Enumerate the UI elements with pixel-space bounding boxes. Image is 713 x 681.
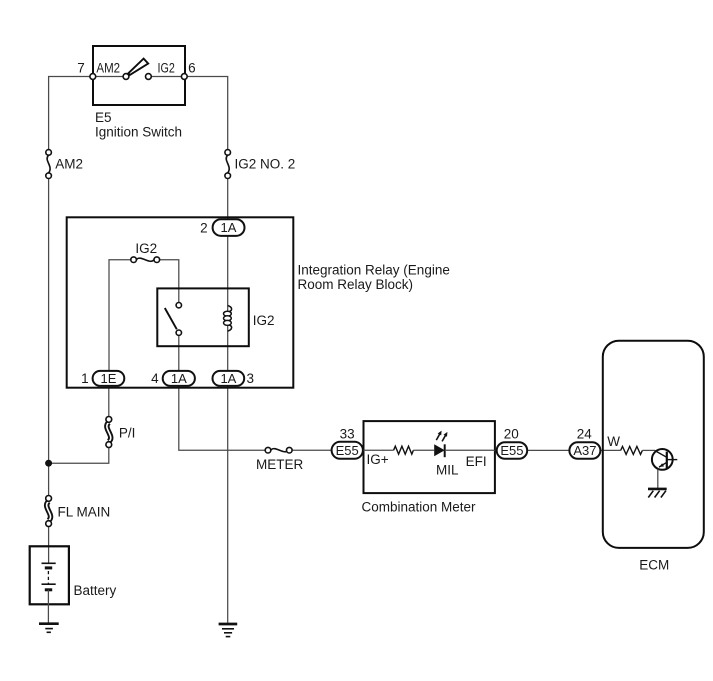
wire: switch internal left segment (93, 76, 124, 78)
relay switch upper contact (176, 303, 181, 308)
IG2 pole contact circle (146, 74, 152, 80)
svg-text:24: 24 (577, 426, 593, 441)
svg-text:AM2: AM2 (96, 60, 120, 75)
svg-text:MIL: MIL (436, 462, 459, 477)
wire: MIL lamp to meter right edge (445, 449, 495, 451)
ground (integration relay) (219, 624, 238, 637)
wire: AM2 fuse to battery main vertical (48, 179, 50, 564)
svg-text:20: 20 (504, 426, 519, 441)
wire: A37 into ECM to resistor (600, 449, 620, 451)
wire: METER fuse to connector E55 pin 33 (292, 449, 332, 451)
svg-text:W: W (607, 434, 620, 449)
svg-text:Battery: Battery (74, 583, 117, 598)
fuse AM2 (46, 150, 52, 179)
wire: transistor emitter to ground (657, 469, 659, 489)
terminal 7 contact circle (90, 74, 96, 80)
svg-text:6: 6 (188, 60, 196, 75)
wire: IG2 NO.2 fuse down through relay coil to ground (227, 179, 229, 623)
wire: terminal 7 to AM2 fuse (left drop) (49, 77, 93, 150)
wire: P/I fuse to junction node (49, 448, 109, 464)
fusible link P/I (106, 417, 112, 448)
wire: relay IG2 fuse left to connector 1E (109, 260, 131, 371)
svg-text:IG2: IG2 (158, 60, 175, 75)
svg-text:E55: E55 (336, 443, 359, 458)
connector 1 1E (oval) (93, 371, 125, 386)
wire: connector 1E down to P/I fuse (108, 386, 110, 417)
ignition switch box E5 (93, 46, 185, 105)
svg-text:FL MAIN: FL MAIN (58, 505, 111, 520)
wire: resistor to transistor (642, 449, 655, 451)
connector E55 pin 20 (oval) (497, 442, 528, 459)
wire: resistor to MIL lamp (413, 449, 434, 451)
wire: connector 4 1A to METER fuse (179, 386, 266, 450)
svg-text:METER: METER (256, 457, 304, 472)
wire: relay IG2 fuse right to relay switch (159, 260, 179, 303)
svg-text:IG2 NO. 2: IG2 NO. 2 (235, 156, 296, 171)
MIL indicator LED (434, 431, 447, 458)
svg-text:1A: 1A (171, 371, 187, 386)
svg-text:P/I: P/I (119, 426, 136, 441)
junction node (dot) (45, 460, 52, 467)
connector A37 pin 24 (oval) (569, 442, 600, 459)
svg-text:Integration Relay (Engine: Integration Relay (Engine (298, 263, 450, 278)
ground (battery) (39, 624, 59, 633)
svg-text:ECM: ECM (639, 557, 669, 572)
wire: relay switch lower contact to connector 4 1A (178, 335, 180, 371)
svg-text:1E: 1E (101, 371, 117, 386)
svg-text:Ignition Switch: Ignition Switch (95, 124, 182, 139)
ECM box (603, 341, 704, 548)
wire: meter internal left (364, 449, 394, 451)
relay switch lower contact (176, 330, 181, 335)
relay switch arm (165, 308, 177, 329)
chassis ground (ECM) (648, 489, 667, 498)
fuse IG2 NO. 2 (225, 150, 231, 179)
svg-text:E55: E55 (500, 443, 523, 458)
battery cell plates (42, 563, 56, 590)
connector E55 pin 33 (oval) (332, 442, 363, 459)
svg-text:1A: 1A (221, 220, 237, 235)
resistor (ECM) (621, 446, 643, 454)
svg-text:IG2: IG2 (253, 313, 275, 328)
relay inner box (157, 288, 249, 346)
svg-text:1: 1 (81, 371, 89, 386)
fusible link FL MAIN (46, 496, 52, 527)
wire: switch internal right segment (151, 76, 185, 78)
terminal 6 contact circle (181, 74, 187, 80)
svg-text:1A: 1A (220, 371, 236, 386)
transistor Q (ECM output) (652, 449, 677, 470)
wire: E55 pin 20 to A37 pin 24 (527, 449, 569, 451)
svg-text:A37: A37 (573, 443, 596, 458)
wire: terminal 6 to IG2 NO.2 fuse (right drop) (184, 77, 227, 150)
AM2 pole contact circle (123, 74, 129, 80)
svg-text:2: 2 (200, 220, 208, 235)
fuse IG2 (inside relay) (131, 257, 160, 263)
svg-text:E5: E5 (95, 110, 112, 125)
svg-text:4: 4 (151, 371, 159, 386)
relay coil (224, 306, 232, 332)
resistor (combination meter) (394, 446, 414, 454)
svg-text:IG+: IG+ (367, 452, 389, 467)
svg-text:33: 33 (340, 426, 355, 441)
svg-text:IG2: IG2 (135, 241, 157, 256)
integration relay outer box (67, 217, 294, 387)
svg-text:3: 3 (247, 371, 255, 386)
battery box (30, 546, 69, 604)
fuse METER (265, 447, 292, 453)
wire: battery to ground (47, 590, 49, 624)
combination meter box (364, 421, 495, 493)
switch lever (AM2 pole) (128, 59, 148, 75)
connector 1A 3 (oval) (213, 371, 245, 386)
svg-text:Room Relay Block): Room Relay Block) (298, 277, 414, 292)
svg-text:Combination Meter: Combination Meter (362, 499, 477, 514)
svg-text:7: 7 (77, 60, 85, 75)
svg-text:AM2: AM2 (55, 156, 83, 171)
connector 2 1A (oval) (213, 219, 245, 236)
label Integration Relay (Engine Room Relay Block) (298, 263, 450, 293)
connector 4 1A (oval) (163, 371, 195, 386)
svg-text:EFI: EFI (466, 454, 487, 469)
